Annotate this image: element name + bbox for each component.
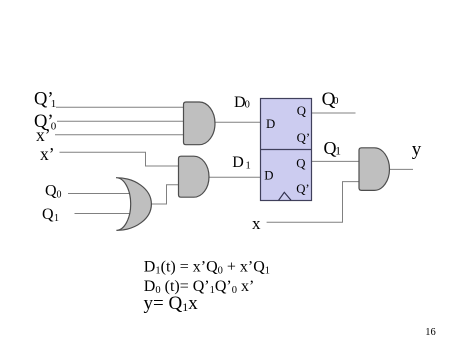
svg-text:Q’: Q’ <box>297 131 311 145</box>
svg-text:1: 1 <box>54 213 59 224</box>
svg-text:x’: x’ <box>40 144 55 164</box>
svg-text:1: 1 <box>335 146 341 158</box>
svg-text:x’: x’ <box>36 125 51 145</box>
svg-text:Q: Q <box>45 183 57 200</box>
svg-text:1: 1 <box>51 98 57 110</box>
svg-text:y= Q1x: y= Q1x <box>144 293 199 314</box>
svg-text:Q: Q <box>296 157 306 171</box>
svg-text:Q: Q <box>42 206 54 223</box>
svg-text:x: x <box>252 214 261 233</box>
svg-text:D: D <box>266 117 275 131</box>
svg-text:16: 16 <box>425 327 436 338</box>
svg-text:0: 0 <box>57 189 62 200</box>
svg-text:D: D <box>264 169 273 183</box>
svg-text:Q’: Q’ <box>296 182 310 196</box>
svg-text:y: y <box>412 139 422 160</box>
svg-text:Q: Q <box>297 104 307 118</box>
svg-text:0: 0 <box>51 120 57 132</box>
svg-text:1: 1 <box>246 160 251 171</box>
svg-text:0: 0 <box>245 100 250 111</box>
svg-text:0: 0 <box>333 96 338 107</box>
svg-text:D: D <box>232 154 244 171</box>
svg-text:D1(t) = x’Q0 + x’Q1: D1(t) = x’Q0 + x’Q1 <box>144 258 270 276</box>
